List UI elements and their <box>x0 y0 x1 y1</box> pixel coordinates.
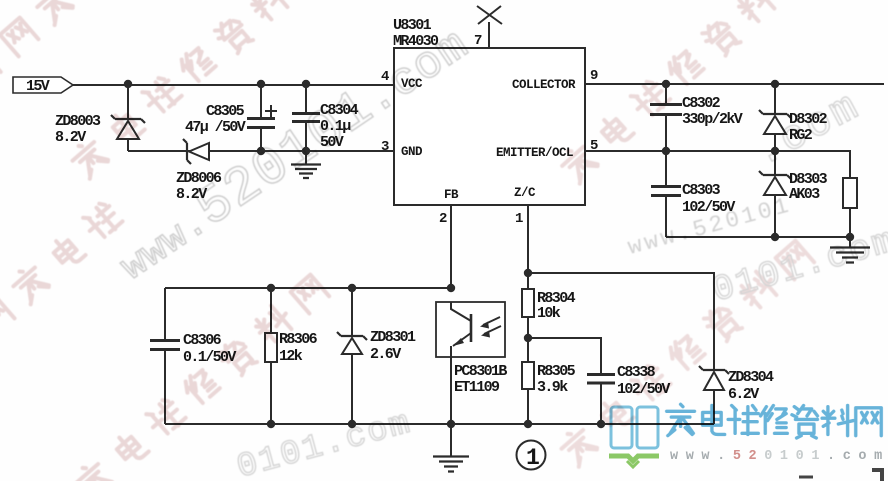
optocoupler PC8301B box <box>436 302 505 357</box>
svg-text:C8306: C8306 <box>183 332 222 349</box>
node 15V rail j2 <box>257 80 265 88</box>
bottom edge artifact corner <box>872 470 884 481</box>
watermark chinese run bottom-left <box>72 272 331 481</box>
node 15V rail j3 <box>302 80 310 88</box>
capacitor C8338 <box>587 375 615 384</box>
svg-text:Z/C: Z/C <box>514 186 536 200</box>
node bottom right rail j1 <box>771 233 779 241</box>
ground right <box>849 237 851 247</box>
svg-text:ZD8304: ZD8304 <box>728 369 774 386</box>
wire bottom rail <box>165 423 714 425</box>
svg-text:PC8301B: PC8301B <box>454 363 507 380</box>
circled 1 figure marker <box>517 441 546 472</box>
pin 7 X no-connect mark <box>477 6 502 24</box>
optocoupler light arrows <box>483 317 501 334</box>
svg-text:3: 3 <box>381 139 389 155</box>
node bottom rail j5 <box>597 420 605 428</box>
node Z/C j1 <box>524 269 532 277</box>
node 15V rail j1 <box>124 80 132 88</box>
svg-text:R8305: R8305 <box>537 363 576 380</box>
node emitter rail j2 <box>771 147 779 155</box>
node bottom rail j4 <box>524 420 532 428</box>
svg-text:1: 1 <box>526 445 540 471</box>
svg-text:6.2V: 6.2V <box>728 386 759 403</box>
zener ZD8304 <box>699 366 729 374</box>
svg-text:C8302: C8302 <box>682 95 721 112</box>
resistor R8306 <box>270 288 272 424</box>
optocoupler transistor <box>451 302 471 424</box>
node emitter rail j1 <box>662 147 670 155</box>
wire bottom right rail <box>666 236 850 238</box>
svg-text:C8305: C8305 <box>206 103 245 120</box>
node gnd rail j1 <box>257 147 265 155</box>
svg-text:47μ /50V: 47μ /50V <box>185 119 246 136</box>
diode D8302 <box>774 84 776 151</box>
zener ZD8301 <box>351 288 353 424</box>
ground under C8304 <box>305 151 307 164</box>
wire left rail <box>164 288 166 424</box>
svg-text:15V: 15V <box>26 78 50 95</box>
watermark chinese run top-left corner partial <box>0 0 112 121</box>
node collector rail j1 <box>662 80 670 88</box>
node bottom right rail j2 <box>846 233 854 241</box>
svg-text:AK03: AK03 <box>789 186 820 203</box>
wire Z/C pin 1 down <box>527 205 529 289</box>
node bottom rail j1 <box>267 420 275 428</box>
watermark chinese run bottom-right <box>557 238 816 469</box>
wire FB rail <box>165 287 451 289</box>
svg-text:8.2V: 8.2V <box>55 129 86 146</box>
logo book icon <box>609 407 659 467</box>
op-amp U1 : IC U8301 box <box>394 48 585 205</box>
node FB rail j2 <box>348 284 356 292</box>
capacitor C8304 <box>305 84 307 151</box>
resistor R8305 <box>522 362 534 389</box>
svg-text:10k: 10k <box>537 305 561 322</box>
svg-text:ZD8301: ZD8301 <box>370 329 416 346</box>
15V input tag <box>13 77 73 93</box>
node bottom rail j3 <box>447 420 455 428</box>
svg-text:R8306: R8306 <box>279 331 318 348</box>
wire top rail right (pin 9 COLLECTOR out) <box>585 83 884 85</box>
wire Z/C top rail to ZD8304 <box>528 273 714 370</box>
svg-text:FB: FB <box>444 188 459 202</box>
bottom edge artifact dash <box>799 476 813 479</box>
wire junction to C8338 <box>528 338 601 374</box>
wire top rail left (15V to pin 4 VCC) <box>73 84 394 86</box>
resistor (unlabeled right) <box>843 178 857 208</box>
watermark chinese run over IC <box>557 0 813 186</box>
resistor R8304 <box>522 289 534 317</box>
wire FB pin 2 down <box>450 205 452 288</box>
svg-text:2.6V: 2.6V <box>370 346 401 363</box>
svg-text:GND: GND <box>401 145 423 159</box>
svg-text:3.9k: 3.9k <box>537 379 568 396</box>
node bottom rail j2 <box>348 420 356 428</box>
svg-text:ET1109: ET1109 <box>454 379 500 396</box>
svg-text:9: 9 <box>590 68 598 84</box>
svg-text:330p/2kV: 330p/2kV <box>682 111 743 128</box>
capacitor C8302 <box>665 84 667 151</box>
node collector rail j2 <box>771 80 779 88</box>
diode D8303 <box>774 151 776 237</box>
zener ZD8006 <box>183 139 191 164</box>
svg-text:U8301: U8301 <box>393 17 432 34</box>
svg-text:www.520101.com: www.520101.com <box>670 449 888 464</box>
wire R8304 to R8305 <box>527 317 529 362</box>
ground under optocoupler <box>450 424 452 456</box>
node FB rail j3 <box>447 284 455 292</box>
pin 7 wire <box>488 22 490 48</box>
C8305 plus sign <box>265 105 277 117</box>
svg-text:COLLECTOR: COLLECTOR <box>512 78 576 92</box>
svg-text:2: 2 <box>439 211 447 227</box>
node gnd rail j2 <box>302 147 310 155</box>
svg-text:7: 7 <box>474 33 482 49</box>
watermark chinese run top-left <box>68 0 327 181</box>
svg-text:1: 1 <box>515 211 523 227</box>
logo chinese text <box>667 404 882 438</box>
svg-text:5: 5 <box>590 138 598 154</box>
capacitor C8305 <box>260 84 262 151</box>
capacitor C8306 <box>150 341 180 350</box>
wire emitter rail (pin 5 to right) <box>585 151 850 178</box>
node Z/C j2 <box>524 334 532 342</box>
svg-text:C8303: C8303 <box>682 182 721 199</box>
svg-text:EMITTER/OCL: EMITTER/OCL <box>496 146 573 160</box>
watermark chinese run left-edge partial <box>0 199 124 368</box>
svg-text:12k: 12k <box>279 348 303 365</box>
zener ZD8003 <box>127 84 129 151</box>
wire gnd rail (ZD8003 to pin 3 GND) <box>128 150 394 152</box>
capacitor C8303 <box>665 151 667 237</box>
node FB rail j1 <box>267 284 275 292</box>
svg-text:ZD8003: ZD8003 <box>55 113 101 130</box>
